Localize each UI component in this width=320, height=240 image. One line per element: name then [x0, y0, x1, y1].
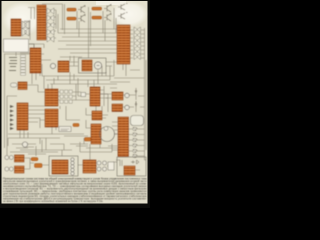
- svg-text:не менее 2 Вт при коэффициенте: не менее 2 Вт при коэффициенте нелинейны…: [3, 200, 103, 203]
- wire mid rails y60-84: [41, 60, 117, 66]
- IC U8 big: [45, 109, 58, 127]
- wire bus line 2: [58, 32, 117, 34]
- transistor Q11: [5, 156, 14, 160]
- ground symbols right: [135, 88, 138, 106]
- wire under white box: [4, 44, 44, 54]
- IC U1 top-left: [11, 19, 21, 36]
- transistor Q1: [78, 5, 85, 13]
- wire E2 bottom: [40, 120, 56, 134]
- power unit box A1: [49, 156, 78, 176]
- wire J left pins: [108, 122, 118, 150]
- wire vertical bus left of top transistors: [63, 4, 65, 34]
- wire verticals under mid: [42, 60, 114, 84]
- wire E right matrix: [58, 92, 76, 100]
- resistor R3: [67, 17, 76, 20]
- diode column VD14: [133, 127, 138, 158]
- diode column VD2-VD6: [47, 8, 54, 42]
- wire vertical center top: [89, 7, 91, 58]
- transformer T4: [52, 160, 68, 174]
- wire bus drops: [77, 8, 116, 41]
- diode VD15: [131, 160, 139, 164]
- wire K to E: [28, 106, 45, 128]
- transformer T5: [83, 160, 96, 173]
- transistor Q12: [5, 167, 14, 171]
- IC U2 tall: [37, 5, 46, 40]
- wire F right: [100, 86, 108, 112]
- connector X2 pin boxes: [21, 55, 26, 75]
- capacitor C1 box: [81, 93, 86, 97]
- label box N1: [59, 127, 71, 132]
- wire diag top block B1 right: [46, 10, 56, 38]
- IC U7 big: [45, 89, 58, 106]
- transformer T3: [15, 166, 25, 173]
- wire I2 right: [122, 102, 145, 112]
- wire mid verticals: [54, 56, 102, 84]
- wire J right pins: [129, 129, 145, 156]
- wire E to F: [76, 84, 90, 100]
- IC U10 right: [112, 92, 123, 100]
- wire bottom extra: [8, 134, 88, 154]
- IC U9 center: [90, 87, 100, 106]
- wire E verticals: [44, 76, 80, 120]
- wire below block H: [80, 144, 120, 156]
- wire bottom mid horizontals: [12, 134, 88, 156]
- IC U4 tall right: [117, 25, 130, 64]
- IC U5 mid-left: [58, 61, 69, 72]
- wire bus line 1: [60, 28, 117, 30]
- wire right bottom: [122, 160, 146, 170]
- transistor Q4: [104, 13, 111, 21]
- wire B1 to bus: [56, 10, 58, 33]
- IC U13 center: [92, 111, 102, 120]
- transistor Q5 top right: [118, 4, 128, 11]
- wire block C right pins: [130, 30, 145, 58]
- transistor Q7 with resistor RL: [50, 63, 55, 68]
- wire F to I1: [100, 94, 112, 98]
- wire under block K: [20, 130, 24, 138]
- IC U14 right tall: [118, 117, 129, 157]
- wire F surround: [78, 76, 102, 111]
- transformer T6: [124, 166, 135, 175]
- diode matrix VD13: [60, 90, 72, 103]
- wire top rail: [42, 3, 63, 5]
- wire lower mid horizontals: [42, 76, 114, 84]
- resistor R7: [31, 158, 38, 161]
- transformer T1: [18, 82, 27, 90]
- wire right long run: [110, 78, 145, 82]
- transistor Q9: [125, 105, 129, 109]
- wire G connections: [86, 108, 108, 118]
- resistor R5: [73, 124, 79, 127]
- resistor R8: [35, 164, 43, 168]
- resistor R1: [67, 8, 76, 11]
- wire I1 right: [123, 90, 145, 100]
- wire from A area down: [3, 44, 34, 48]
- IC U3 tall left: [30, 48, 41, 73]
- wire bus line 4: [58, 40, 117, 42]
- caption text: [3, 177, 148, 203]
- transistor Q10: [22, 142, 27, 147]
- wire bus line 5: [66, 44, 117, 46]
- relay coil U6: [82, 60, 92, 71]
- IC U15 center low: [91, 124, 101, 144]
- wire right vertical rail: [145, 28, 147, 160]
- wire B2 bottom stubs: [28, 44, 40, 84]
- wire under white box: [16, 52, 30, 56]
- wire bus line 6: [58, 48, 117, 50]
- transformer T2: [15, 155, 25, 162]
- wire L connections: [27, 85, 45, 92]
- wire left rail: [5, 54, 18, 160]
- wire stub above block A: [24, 8, 35, 22]
- transistor Q2: [104, 4, 111, 12]
- transistor Q3: [78, 14, 85, 22]
- wire right mid links: [106, 62, 140, 88]
- wire bus line 3: [62, 36, 117, 38]
- IC U12 tall left: [17, 103, 28, 130]
- wire left column to block A: [22, 20, 30, 40]
- wire bottom long rails: [10, 140, 88, 152]
- transistor Q8: [125, 93, 129, 97]
- filter box A2: [108, 162, 114, 170]
- rectifier circles: [71, 158, 74, 175]
- diode column VD7-VD12: [134, 27, 141, 60]
- pin labels text: [9, 57, 17, 71]
- transistor Q6 top right: [118, 13, 128, 20]
- diode bridge VD1: [22, 21, 29, 36]
- wire H circle connections: [86, 120, 118, 134]
- rectifier bridge circles: [97, 161, 107, 171]
- wire network bottom left: [8, 132, 60, 150]
- connector box X1: [4, 39, 29, 52]
- IC U11 right: [112, 104, 123, 112]
- meter M1 circle: [94, 62, 101, 69]
- resistor R2: [92, 7, 102, 10]
- capacitor C2 cylinder: [131, 116, 144, 126]
- output box A3: [117, 157, 146, 176]
- wire bus line 7: [70, 52, 117, 54]
- resistor R6: [85, 138, 92, 142]
- resistor R4: [92, 16, 102, 19]
- inductor L1: [11, 83, 18, 87]
- wire bottom legend links: [24, 148, 120, 169]
- motor M2 circle: [100, 127, 115, 142]
- arrow column pins: [10, 105, 14, 130]
- relay box K1 outline: [79, 58, 107, 73]
